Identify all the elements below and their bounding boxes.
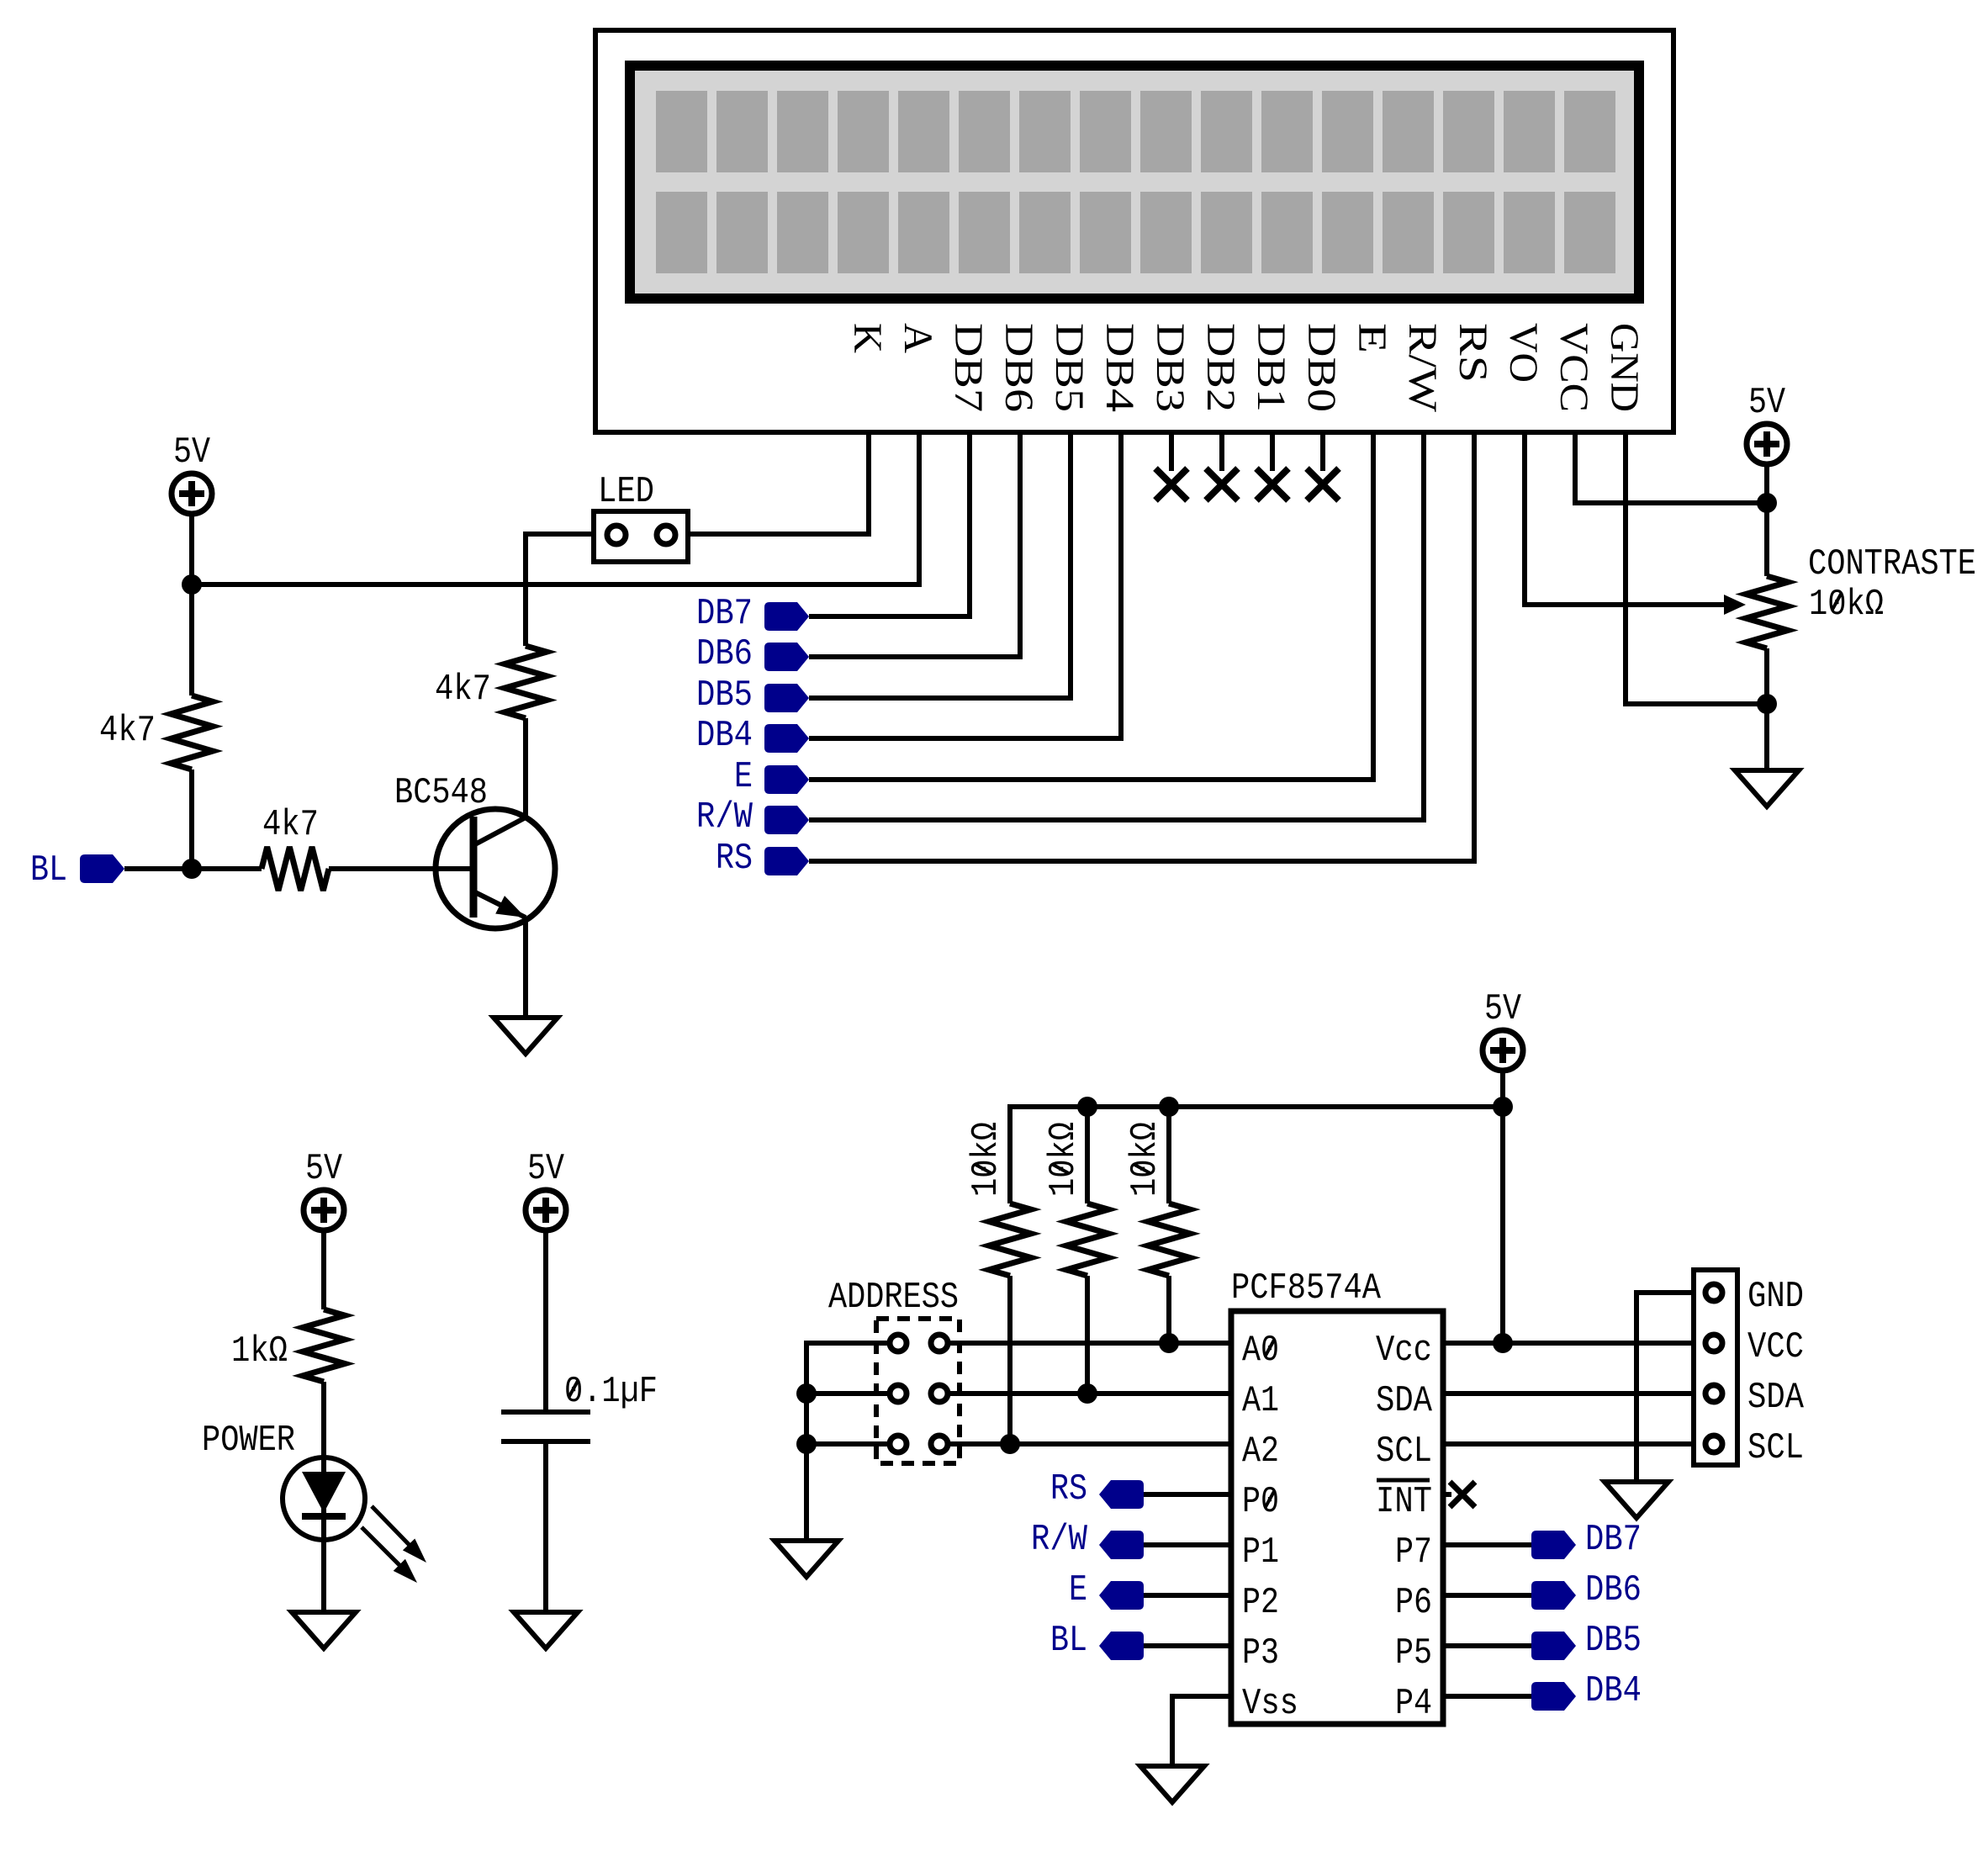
svg-text:5V: 5V <box>1748 382 1785 424</box>
svg-text:P2: P2 <box>1242 1582 1279 1624</box>
svg-text:5V: 5V <box>1484 988 1521 1030</box>
svg-text:BC548: BC548 <box>394 772 488 814</box>
svg-text:5V: 5V <box>305 1148 342 1190</box>
svg-text:R/W: R/W <box>1400 323 1445 413</box>
svg-text:E: E <box>734 756 753 798</box>
svg-text:CONTRASTE: CONTRASTE <box>1808 543 1976 585</box>
svg-text:4k7: 4k7 <box>262 804 319 846</box>
svg-text:10kΩ: 10kΩ <box>1809 584 1884 626</box>
svg-text:ADDRESS: ADDRESS <box>828 1277 959 1319</box>
svg-text:VO: VO <box>1501 323 1546 383</box>
svg-text:K: K <box>845 323 890 353</box>
svg-text:DB4: DB4 <box>696 715 753 757</box>
svg-text:RS: RS <box>716 838 753 880</box>
svg-text:VCC: VCC <box>1552 323 1596 412</box>
svg-text:4k7: 4k7 <box>435 669 491 711</box>
svg-text:DB2: DB2 <box>1198 323 1243 412</box>
svg-text:POWER: POWER <box>202 1420 295 1462</box>
svg-text:P3: P3 <box>1242 1632 1279 1674</box>
svg-text:A: A <box>896 323 940 353</box>
svg-text:P7: P7 <box>1395 1531 1432 1573</box>
svg-text:P5: P5 <box>1395 1632 1432 1674</box>
svg-text:VCC: VCC <box>1747 1326 1804 1368</box>
svg-text:P4: P4 <box>1395 1683 1432 1725</box>
svg-text:DB3: DB3 <box>1148 323 1192 412</box>
svg-text:DB4: DB4 <box>1097 323 1142 412</box>
svg-text:10kΩ: 10kΩ <box>1124 1122 1166 1197</box>
svg-text:Vss: Vss <box>1242 1683 1298 1725</box>
svg-text:SDA: SDA <box>1747 1377 1804 1419</box>
svg-text:P0: P0 <box>1242 1481 1279 1523</box>
svg-text:5V: 5V <box>527 1148 564 1190</box>
svg-text:0.1µF: 0.1µF <box>564 1371 658 1413</box>
svg-text:E: E <box>1350 323 1394 353</box>
svg-text:4k7: 4k7 <box>99 710 156 752</box>
svg-text:SDA: SDA <box>1376 1380 1432 1422</box>
svg-text:DB7: DB7 <box>1585 1519 1642 1561</box>
svg-text:R/W: R/W <box>696 796 753 838</box>
svg-text:BL: BL <box>1050 1620 1087 1662</box>
svg-text:A1: A1 <box>1242 1380 1279 1422</box>
svg-text:DB0: DB0 <box>1299 323 1344 412</box>
svg-text:DB4: DB4 <box>1585 1670 1642 1712</box>
svg-text:5V: 5V <box>173 431 210 473</box>
svg-text:SCL: SCL <box>1376 1431 1432 1473</box>
svg-text:DB1: DB1 <box>1249 323 1293 412</box>
svg-text:DB6: DB6 <box>696 633 753 675</box>
svg-text:SCL: SCL <box>1747 1427 1804 1469</box>
svg-text:RS: RS <box>1050 1468 1087 1510</box>
svg-text:P1: P1 <box>1242 1531 1279 1573</box>
svg-text:DB7: DB7 <box>696 593 753 635</box>
svg-text:GND: GND <box>1747 1276 1804 1318</box>
svg-text:P6: P6 <box>1395 1582 1432 1624</box>
svg-text:DB5: DB5 <box>1047 323 1092 412</box>
svg-text:R/W: R/W <box>1031 1519 1087 1561</box>
svg-text:LED: LED <box>598 471 654 513</box>
svg-text:DB5: DB5 <box>1585 1620 1642 1662</box>
svg-text:GND: GND <box>1602 323 1647 412</box>
svg-text:DB6: DB6 <box>997 323 1041 412</box>
svg-text:A0: A0 <box>1242 1330 1279 1372</box>
svg-text:E: E <box>1069 1569 1087 1611</box>
svg-text:BL: BL <box>30 849 67 891</box>
svg-text:DB7: DB7 <box>946 323 991 412</box>
svg-text:A2: A2 <box>1242 1431 1279 1473</box>
svg-text:10kΩ: 10kΩ <box>965 1122 1007 1197</box>
svg-text:10kΩ: 10kΩ <box>1043 1122 1085 1197</box>
svg-text:INT: INT <box>1376 1481 1432 1523</box>
svg-text:DB5: DB5 <box>696 674 753 717</box>
svg-text:1kΩ: 1kΩ <box>231 1330 288 1372</box>
svg-text:PCF8574A: PCF8574A <box>1231 1267 1382 1309</box>
svg-text:DB6: DB6 <box>1585 1569 1642 1611</box>
svg-text:RS: RS <box>1451 323 1495 383</box>
svg-text:Vcc: Vcc <box>1376 1330 1432 1372</box>
